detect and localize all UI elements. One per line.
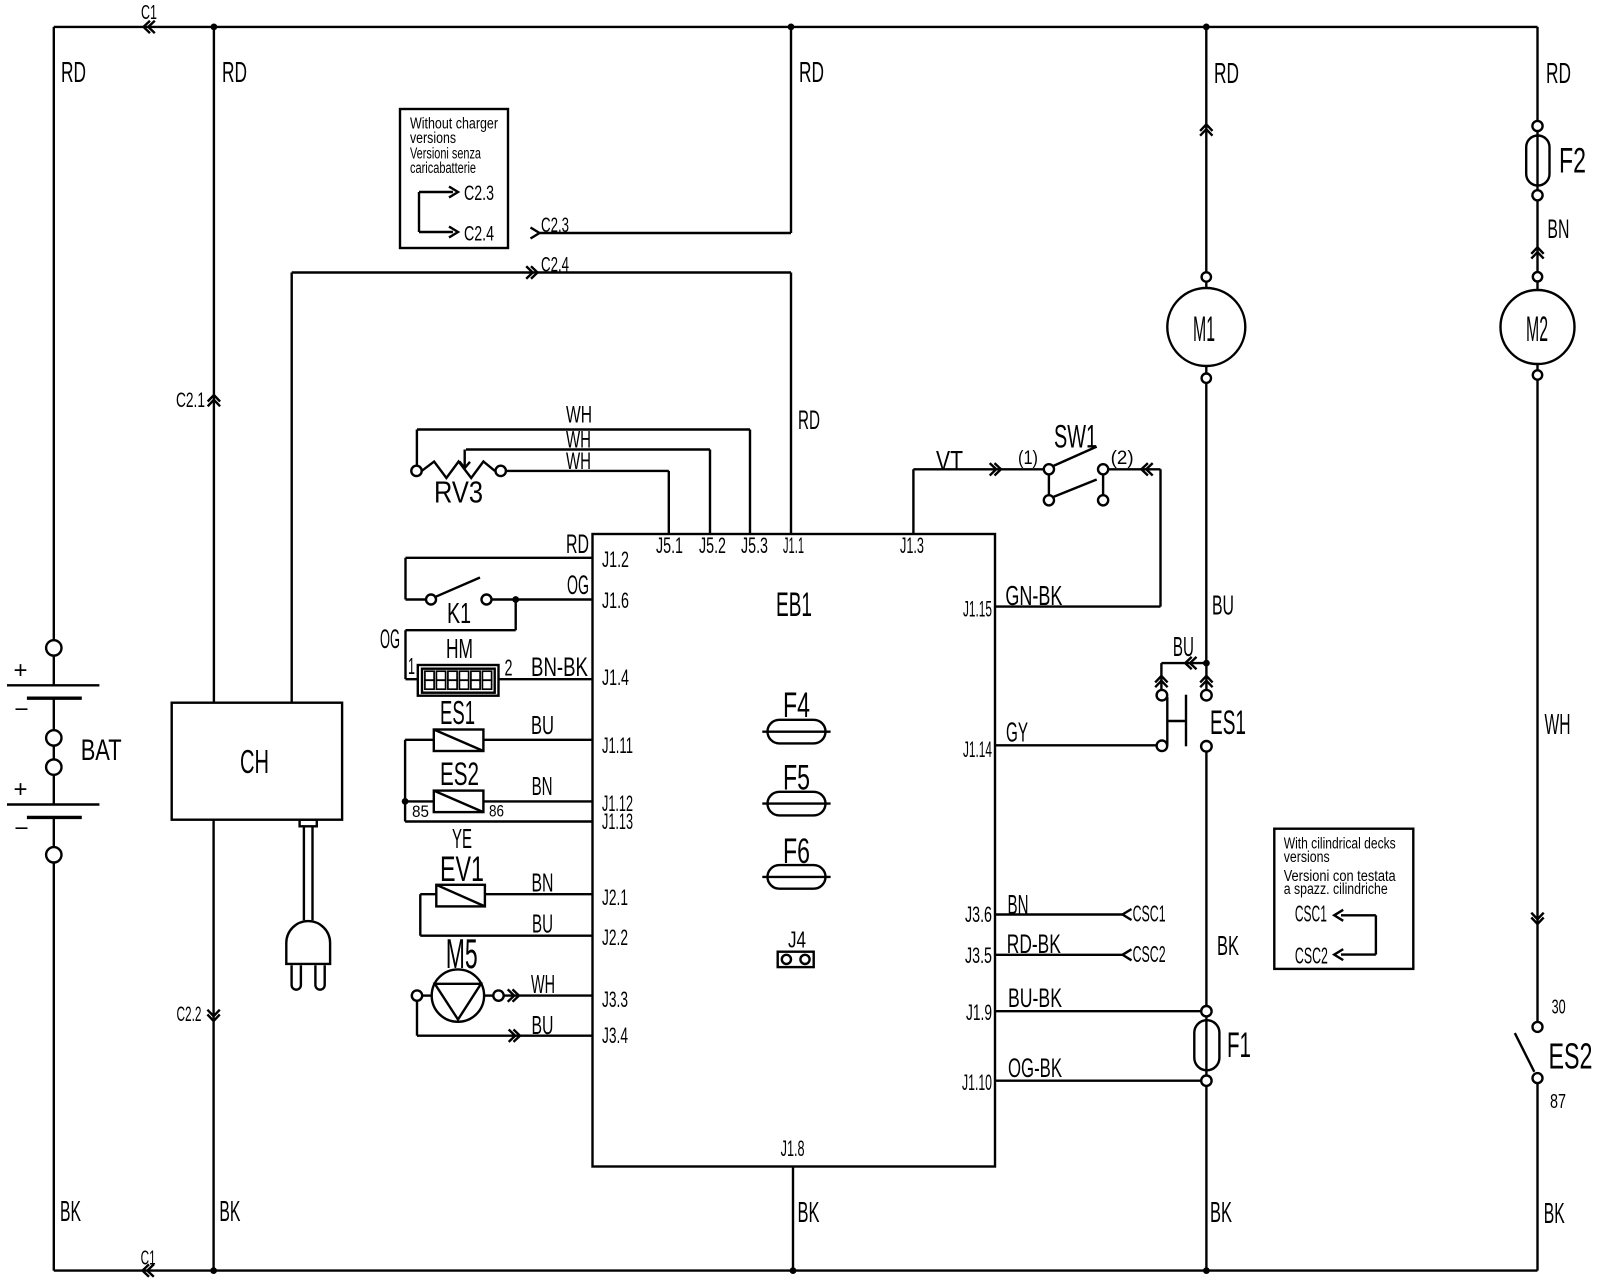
svg-text:BN: BN [532, 868, 554, 898]
wire OG K1 to EB1 pin J1.6 [492, 598, 593, 600]
wire BN EV1 to EB1 pin J2.1 [485, 893, 593, 895]
svg-text:F6: F6 [783, 832, 810, 871]
note box internal link CSC1-CSC2 [1341, 914, 1376, 916]
wire C2.4 from CH branch to J1.1 column [292, 271, 791, 273]
wire WH M5 to EB1 pin J3.3 [504, 994, 593, 996]
svg-text:WH: WH [1545, 709, 1571, 741]
svg-text:+: + [14, 776, 28, 803]
electronic board EB1 box [593, 534, 996, 1167]
svg-text:CH: CH [240, 743, 269, 780]
svg-text:WH: WH [566, 402, 592, 429]
wire common branch to EB1 pin J1.13 [405, 820, 592, 822]
svg-text:C2.3: C2.3 [464, 182, 494, 205]
wire WH RV3 wiper to EB1 pin J5.2 [466, 448, 710, 450]
wire BK switch ES2 to bottom bus [1536, 1083, 1538, 1271]
relay coil ES1 [434, 730, 484, 752]
wire VT EB1 pin J1.3 to switch SW1 [912, 469, 914, 534]
svg-text:BU: BU [1173, 631, 1194, 662]
svg-text:ES2: ES2 [1549, 1036, 1593, 1077]
fuse F5 (on EB1) [768, 792, 826, 816]
wire BN EB1 pin J3.6 to CSC1 [995, 913, 1123, 915]
wire BU EV1 to EB1 pin J2.2 [420, 893, 436, 895]
svg-text:versions: versions [410, 130, 456, 147]
node C2.4 arrow [531, 266, 538, 278]
wire OG K1 branch to hour meter HM pin 1 [515, 600, 517, 631]
svg-text:RD: RD [61, 57, 86, 89]
svg-text:C2.2: C2.2 [177, 1003, 202, 1026]
svg-text:WH: WH [531, 969, 555, 999]
svg-text:(1): (1) [1018, 448, 1038, 469]
junction top bus / J1.1 column [788, 24, 795, 31]
svg-text:85: 85 [412, 802, 429, 821]
wire BU motor M1 down to ES1 contact [1205, 383, 1207, 663]
motor M1 [1167, 272, 1245, 383]
fuse F2 [1526, 121, 1549, 200]
svg-text:M5: M5 [446, 930, 478, 977]
svg-text:87: 87 [1550, 1091, 1566, 1113]
wire C2.3 to top-bus column [540, 232, 791, 234]
junction BU branch at ES1 contact [1203, 660, 1210, 667]
potentiometer RV3 [411, 430, 506, 479]
svg-text:J1.1: J1.1 [783, 533, 804, 558]
wire RD top bus to C2.3 (J1.1 column upper segment) [790, 27, 792, 233]
svg-text:GN-BK: GN-BK [1005, 580, 1062, 611]
svg-text:J5.3: J5.3 [741, 533, 768, 558]
wire ES2 coil left stub [405, 800, 434, 802]
svg-text:J3.5: J3.5 [965, 943, 992, 968]
battery BAT [7, 640, 99, 862]
jumper J4 (on EB1) [778, 952, 814, 967]
wire GN-BK EB1 pin J1.15 to SW1 [995, 605, 1161, 607]
svg-text:BK: BK [1210, 1197, 1232, 1229]
svg-text:J3.3: J3.3 [602, 987, 628, 1012]
svg-text:VT: VT [936, 445, 963, 476]
hour meter HM [418, 665, 499, 696]
switch SW1 [1044, 447, 1108, 506]
svg-text:K1: K1 [447, 598, 471, 630]
svg-text:RD: RD [1214, 58, 1239, 90]
svg-text:RD: RD [799, 57, 824, 89]
mains cable from CH [300, 820, 317, 827]
node C2.3 arrowhead [531, 228, 540, 239]
svg-text:WH: WH [566, 448, 591, 475]
junction top bus / M1 column [1203, 24, 1210, 31]
svg-text:versions: versions [1284, 849, 1330, 866]
wire BN ES2 coil to EB1 pin J1.12 [483, 800, 592, 802]
svg-text:BAT: BAT [81, 734, 122, 767]
wire ES1 coil left to common branch [405, 739, 434, 741]
svg-text:RD: RD [798, 405, 820, 435]
wire BU ES1 coil to EB1 pin J1.11 [483, 739, 592, 741]
node C1 (bottom) arrow [143, 1264, 150, 1276]
svg-text:RD-BK: RD-BK [1007, 929, 1061, 959]
wire BK charger CH to bottom bus [212, 820, 214, 1271]
svg-text:1: 1 [408, 653, 415, 679]
svg-text:RD: RD [222, 57, 247, 89]
svg-text:J1.3: J1.3 [900, 533, 924, 558]
svg-text:C1: C1 [141, 1247, 156, 1269]
svg-text:30: 30 [1552, 997, 1566, 1019]
svg-text:CSC2: CSC2 [1133, 941, 1166, 967]
svg-text:C2.1: C2.1 [176, 389, 205, 412]
pump motor M5 [412, 969, 504, 1021]
node C2.1 arrow [208, 395, 220, 402]
wire WH motor M2 to switch ES2 [1536, 380, 1538, 1022]
wire BN-BK HM pin 2 to EB1 pin J1.4 [499, 678, 593, 680]
wire BU M5 to EB1 pin J3.4 [416, 1001, 418, 1036]
svg-text:M1: M1 [1193, 310, 1215, 349]
wire RD top bus to motor M1 [1205, 27, 1207, 272]
svg-text:CSC2: CSC2 [1295, 942, 1328, 968]
solenoid valve EV1 [436, 885, 485, 907]
svg-text:J1.4: J1.4 [602, 665, 629, 690]
svg-text:HM: HM [446, 633, 473, 664]
motor M2 [1501, 272, 1575, 380]
fuse F6 (on EB1) [768, 865, 826, 889]
svg-text:BU: BU [532, 909, 553, 939]
relay coil ES2 [434, 791, 484, 813]
svg-text:J2.1: J2.1 [602, 885, 628, 910]
svg-text:2: 2 [505, 655, 513, 681]
svg-text:(2): (2) [1111, 448, 1134, 469]
svg-text:BK: BK [798, 1197, 820, 1229]
svg-text:BU-BK: BU-BK [1008, 983, 1062, 1013]
svg-text:–: – [16, 695, 29, 722]
svg-text:J1.8: J1.8 [781, 1136, 805, 1161]
svg-text:M2: M2 [1526, 310, 1548, 349]
charger CH box [172, 703, 342, 820]
svg-text:+: + [14, 657, 28, 684]
svg-text:J1.14: J1.14 [963, 737, 992, 762]
fuse F1 [1194, 1006, 1219, 1086]
wire BU-BK EB1 pin J1.9 to fuse F1 [995, 1010, 1201, 1012]
svg-text:J5.2: J5.2 [699, 533, 726, 558]
wire RD-BK EB1 pin J3.5 to CSC2 [995, 954, 1123, 956]
node C2.2 arrow [207, 1015, 219, 1022]
svg-text:BK: BK [219, 1196, 240, 1228]
wire RD EB1 pin J1.2 to key switch K1 [406, 557, 593, 559]
svg-text:C2.4: C2.4 [464, 223, 494, 246]
svg-text:RD: RD [1546, 58, 1571, 90]
wire BK fuse F1 to bottom bus [1205, 1086, 1207, 1271]
wire BK EB1 pin J1.8 to bottom bus [792, 1167, 794, 1271]
note box internal link C2.3-C2.4 [418, 192, 420, 232]
svg-text:BK: BK [1217, 930, 1239, 961]
svg-text:a spazz. cilindriche: a spazz. cilindriche [1284, 881, 1388, 898]
svg-text:CSC1: CSC1 [1133, 901, 1166, 927]
wire OG-BK EB1 pin J1.10 to fuse F1 [995, 1079, 1201, 1081]
note box: without charger versions [400, 109, 508, 248]
wire WH RV3 right terminal to EB1 pin J5.1 [506, 470, 669, 472]
svg-text:C1: C1 [141, 2, 157, 24]
junction bottom bus / J1.8 [790, 1267, 797, 1274]
wire WH RV3 left terminal to EB1 pin J5.3 [417, 428, 750, 430]
svg-text:F4: F4 [783, 686, 810, 725]
junction bottom bus / CH column [210, 1267, 217, 1274]
svg-text:J1.2: J1.2 [602, 547, 629, 572]
svg-text:J1.10: J1.10 [962, 1070, 992, 1095]
svg-text:J1.6: J1.6 [602, 588, 629, 613]
wire SW1 (2) to GN-BK riser [1108, 468, 1160, 470]
svg-text:F2: F2 [1559, 141, 1586, 180]
wire C1 top bus rail [54, 26, 1538, 28]
svg-text:ES2: ES2 [440, 756, 479, 792]
svg-text:J3.6: J3.6 [965, 902, 992, 927]
wire RD C2.4 down to EB1 pin J1.1 [790, 273, 792, 535]
svg-text:OG: OG [567, 570, 589, 600]
node C1 (top) arrow [144, 21, 151, 33]
svg-text:F1: F1 [1227, 1026, 1251, 1065]
wire BN fuse F2 to motor M2 [1536, 200, 1538, 271]
wire branch CH top from C2.4 [291, 273, 293, 703]
wire BK battery negative column (lower) [53, 863, 55, 1271]
contact ES1 (power) [1155, 663, 1212, 752]
svg-text:86: 86 [489, 802, 504, 821]
wire RD column to charger CH [213, 27, 215, 703]
svg-text:EV1: EV1 [440, 850, 484, 889]
svg-text:RV3: RV3 [434, 475, 483, 510]
mains plug symbol [286, 921, 330, 964]
switch ES2 (contact) [1515, 1022, 1543, 1083]
svg-text:J2.2: J2.2 [602, 925, 628, 950]
svg-text:CSC1: CSC1 [1295, 901, 1327, 927]
note box: with cilindrical decks versions [1274, 829, 1413, 969]
fuse F4 (on EB1) [768, 720, 826, 744]
svg-text:OG: OG [380, 624, 400, 654]
junction bottom bus / F1 column [1203, 1267, 1210, 1274]
svg-text:OG-BK: OG-BK [1008, 1053, 1062, 1083]
junction K1 / hour-meter branch [512, 596, 519, 603]
wire RD top bus to fuse F2 [1536, 27, 1538, 121]
wire BK ES1 contact to fuse F1 [1205, 752, 1207, 1006]
wire C1 bottom bus rail [54, 1269, 1538, 1271]
svg-text:RD: RD [566, 529, 589, 559]
svg-text:BN-BK: BN-BK [531, 652, 588, 682]
svg-text:F5: F5 [783, 759, 810, 798]
wire BU branch to ES1 contact left side [1161, 662, 1206, 664]
svg-text:J1.13: J1.13 [602, 809, 633, 834]
svg-text:J1.15: J1.15 [963, 597, 992, 622]
svg-text:BU: BU [532, 1010, 554, 1040]
svg-text:BK: BK [1544, 1198, 1565, 1230]
svg-text:ES1: ES1 [1210, 704, 1246, 742]
svg-text:BU: BU [1212, 590, 1234, 621]
svg-text:caricabatterie: caricabatterie [410, 160, 476, 177]
wire RD battery positive column (upper) [53, 27, 55, 640]
svg-text:J1.11: J1.11 [602, 733, 633, 758]
svg-text:BN: BN [1008, 889, 1029, 920]
svg-text:GY: GY [1006, 717, 1028, 748]
svg-text:BU: BU [531, 710, 554, 740]
junction ES2 coil left [402, 798, 409, 805]
svg-text:ES1: ES1 [440, 694, 475, 731]
svg-text:J1.9: J1.9 [966, 1000, 992, 1025]
svg-text:J3.4: J3.4 [602, 1023, 628, 1048]
switch K1 [426, 578, 492, 605]
svg-text:SW1: SW1 [1054, 419, 1097, 455]
wire GY EB1 pin J1.14 to ES1 contact [995, 744, 1157, 746]
svg-text:J5.1: J5.1 [656, 533, 683, 558]
svg-text:BK: BK [60, 1196, 81, 1228]
svg-text:BN: BN [1547, 214, 1569, 244]
svg-text:–: – [16, 814, 29, 841]
junction top bus / RD column 2 [211, 24, 218, 31]
svg-text:BN: BN [532, 771, 553, 801]
svg-text:EB1: EB1 [776, 586, 812, 624]
svg-text:J4: J4 [788, 927, 806, 953]
